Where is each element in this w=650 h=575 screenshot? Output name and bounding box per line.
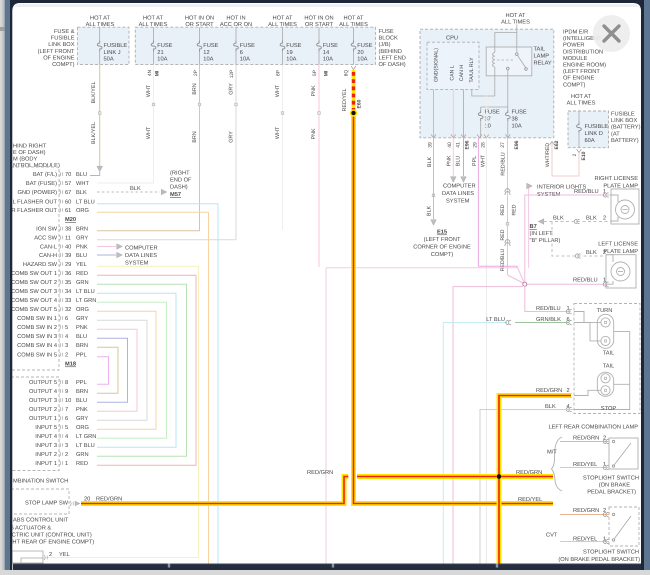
svg-text:FUSE: FUSE (512, 110, 527, 116)
svg-text:COMPUTER: COMPUTER (125, 246, 158, 252)
svg-text:10A: 10A (240, 57, 250, 63)
svg-text:BLK: BLK (427, 206, 433, 217)
svg-text:HOT AT: HOT AT (90, 16, 111, 22)
svg-text:PNK: PNK (311, 128, 317, 139)
svg-text:E OF DASH): E OF DASH) (13, 149, 46, 156)
svg-text:LT BLU: LT BLU (76, 443, 95, 449)
svg-text:BLK/YEL: BLK/YEL (91, 122, 97, 144)
svg-text:M57: M57 (170, 192, 181, 198)
svg-text:CAN-L: CAN-L (40, 245, 57, 251)
svg-text:BLU: BLU (76, 253, 87, 259)
svg-text:COMB SW IN 1: COMB SW IN 1 (17, 316, 57, 322)
svg-text:2: 2 (49, 552, 52, 558)
svg-text:M/T: M/T (547, 449, 557, 456)
svg-text:2: 2 (603, 216, 606, 222)
svg-text:HOT AT: HOT AT (343, 16, 364, 22)
svg-text:12: 12 (203, 50, 209, 56)
svg-text:2: 2 (65, 452, 68, 458)
svg-text:COMB SW OUT 3: COMB SW OUT 3 (11, 289, 57, 295)
svg-text:CAN H: CAN H (459, 65, 465, 81)
svg-text:5: 5 (65, 325, 68, 331)
svg-text:BLK: BLK (586, 250, 597, 256)
svg-text:BRN: BRN (192, 131, 198, 142)
svg-text:ORG: ORG (76, 425, 89, 431)
svg-text:E96: E96 (464, 140, 470, 149)
svg-text:RIGHT LICENSE: RIGHT LICENSE (594, 176, 638, 182)
svg-text:HOT IN: HOT IN (226, 16, 245, 22)
svg-text:INPUT 4: INPUT 4 (35, 434, 57, 440)
svg-text:BRN: BRN (192, 83, 198, 94)
svg-text:PNK: PNK (76, 245, 88, 251)
svg-text:20: 20 (357, 50, 363, 56)
svg-text:10A: 10A (286, 57, 296, 63)
svg-text:50A: 50A (104, 57, 114, 63)
svg-text:YEL: YEL (59, 552, 70, 558)
svg-text:RED/BLU: RED/BLU (536, 305, 561, 312)
svg-text:RED/GRN: RED/GRN (573, 435, 599, 442)
svg-text:LINK BOX: LINK BOX (48, 42, 74, 48)
svg-text:CVT: CVT (546, 533, 558, 539)
svg-text:(LEFT FRONT: (LEFT FRONT (563, 68, 600, 75)
svg-text:8Q: 8Q (343, 70, 349, 77)
svg-text:BAT (F/L): BAT (F/L) (33, 171, 57, 178)
svg-text:BLK: BLK (586, 216, 597, 222)
svg-text:(AT: (AT (611, 130, 620, 137)
svg-text:6: 6 (240, 50, 243, 56)
svg-text:(LEFT FRONT: (LEFT FRONT (38, 48, 75, 55)
svg-text:RED/GRN: RED/GRN (573, 507, 599, 514)
svg-text:ACC SW: ACC SW (34, 236, 57, 242)
svg-text:DASH): DASH) (170, 184, 188, 191)
svg-text:19: 19 (286, 50, 292, 56)
svg-text:29: 29 (65, 262, 71, 268)
svg-text:PPL: PPL (76, 380, 87, 386)
svg-text:BLK/YEL: BLK/YEL (91, 82, 97, 104)
svg-text:PEDAL BRACKET): PEDAL BRACKET) (587, 489, 636, 496)
svg-text:LT BLU: LT BLU (76, 289, 95, 295)
svg-text:HAZARD SW: HAZARD SW (23, 262, 58, 268)
svg-text:LEFT LICENSE: LEFT LICENSE (598, 242, 638, 248)
svg-text:14: 14 (323, 50, 329, 56)
svg-text:HOT AT: HOT AT (272, 16, 293, 22)
svg-text:TAIL: TAIL (534, 47, 546, 53)
svg-text:MI: MI (154, 70, 160, 76)
svg-text:38: 38 (512, 117, 518, 123)
svg-text:10: 10 (65, 398, 71, 404)
svg-text:(ON BRAKE PEDAL BRACKET): (ON BRAKE PEDAL BRACKET) (558, 556, 640, 563)
svg-text:RED/YEL: RED/YEL (518, 496, 542, 503)
svg-text:L FLASHER OUT: L FLASHER OUT (13, 200, 58, 206)
svg-text:POWER: POWER (563, 43, 585, 49)
svg-text:10A: 10A (512, 124, 522, 130)
svg-text:4: 4 (65, 434, 68, 440)
svg-text:WHT: WHT (275, 84, 281, 97)
svg-text:LT BLU: LT BLU (76, 200, 95, 206)
svg-text:WHT: WHT (480, 154, 486, 167)
svg-text:WHT: WHT (275, 126, 281, 139)
svg-text:SYSTEM: SYSTEM (446, 199, 470, 205)
svg-text:11: 11 (65, 236, 71, 242)
svg-text:INPUT 5: INPUT 5 (35, 425, 57, 431)
svg-text:BLK: BLK (427, 157, 433, 168)
svg-text:COMB SW IN 5: COMB SW IN 5 (17, 353, 57, 359)
svg-text:SYSTEM: SYSTEM (125, 261, 149, 267)
svg-text:8P: 8P (275, 70, 281, 76)
svg-text:STOPLIGHT SWITCH: STOPLIGHT SWITCH (583, 550, 639, 556)
svg-text:E62: E62 (554, 140, 560, 149)
svg-text:5: 5 (65, 425, 68, 431)
svg-text:OUTPUT 2: OUTPUT 2 (29, 407, 57, 413)
svg-text:RED/BLU: RED/BLU (500, 152, 506, 175)
svg-text:M (BODY: M (BODY (13, 156, 38, 163)
svg-text:37: 37 (485, 117, 491, 123)
svg-text:E60: E60 (356, 99, 362, 108)
svg-text:LAMP: LAMP (534, 54, 550, 60)
svg-text:2P: 2P (193, 70, 199, 76)
svg-text:HIND RIGHT: HIND RIGHT (13, 144, 47, 150)
svg-text:MBINATION SWITCH: MBINATION SWITCH (13, 479, 68, 485)
svg-text:MODULE: MODULE (563, 56, 588, 62)
svg-text:DISTRIBUTION: DISTRIBUTION (563, 49, 603, 55)
svg-text:6: 6 (65, 316, 68, 322)
svg-text:RED/YEL: RED/YEL (573, 461, 597, 468)
svg-text:PNK: PNK (76, 407, 88, 413)
svg-text:4N: 4N (147, 69, 153, 76)
svg-text:CAN-H: CAN-H (39, 253, 57, 259)
svg-text:2: 2 (65, 353, 68, 359)
svg-text:PNK: PNK (311, 85, 317, 96)
svg-text:6: 6 (65, 416, 68, 422)
svg-text:ALL TIMES: ALL TIMES (501, 20, 530, 26)
svg-text:60: 60 (65, 200, 71, 206)
svg-text:60A: 60A (585, 138, 595, 144)
svg-text:COMB SW OUT 1: COMB SW OUT 1 (11, 271, 57, 277)
svg-text:BRN: BRN (76, 343, 88, 349)
svg-text:BLU: BLU (76, 334, 87, 340)
svg-text:B7: B7 (530, 224, 537, 230)
svg-text:GND (POWER): GND (POWER) (18, 189, 58, 196)
svg-text:COMPT): COMPT) (52, 61, 75, 68)
svg-text:PNK: PNK (76, 325, 88, 331)
svg-text:R FLASHER OUT: R FLASHER OUT (11, 208, 57, 214)
svg-text:FUSE: FUSE (286, 43, 301, 49)
svg-text:NTROL MODULE): NTROL MODULE) (13, 162, 60, 169)
svg-text:COMB SW IN 3: COMB SW IN 3 (17, 334, 57, 340)
svg-text:GRN: GRN (76, 280, 89, 286)
svg-text:OF DASH): OF DASH) (379, 61, 406, 68)
svg-text:41: 41 (455, 142, 461, 148)
svg-text:LINK J: LINK J (104, 50, 121, 56)
svg-text:RED/GRN: RED/GRN (536, 387, 562, 394)
svg-text:GRY: GRY (228, 83, 234, 95)
svg-text:COMB SW IN 4: COMB SW IN 4 (17, 343, 57, 349)
svg-text:7: 7 (65, 407, 68, 413)
svg-text:BLK: BLK (76, 190, 87, 196)
svg-text:MI: MI (323, 70, 329, 76)
svg-text:LT GRN: LT GRN (76, 434, 96, 440)
svg-text:E10: E10 (581, 151, 587, 160)
svg-text:ECTRIC UNIT (CONTROL UNIT): ECTRIC UNIT (CONTROL UNIT) (8, 532, 92, 539)
svg-text:GRY: GRY (76, 416, 88, 422)
svg-text:BLK: BLK (553, 216, 564, 222)
svg-text:E96: E96 (514, 140, 520, 149)
svg-text:10A: 10A (157, 57, 167, 63)
svg-text:ALL TIMES: ALL TIMES (567, 101, 596, 107)
svg-text:WHT: WHT (146, 126, 152, 139)
svg-text:70: 70 (65, 172, 71, 178)
svg-text:35: 35 (65, 280, 71, 286)
svg-text:LT GRN: LT GRN (76, 298, 96, 304)
svg-text:GRY: GRY (228, 131, 234, 143)
svg-text:38: 38 (65, 227, 71, 233)
svg-text:ABS CONTROL UNIT: ABS CONTROL UNIT (13, 518, 69, 524)
svg-text:BLK: BLK (545, 404, 556, 410)
svg-text:TURN: TURN (597, 308, 613, 314)
svg-text:RED/BLU: RED/BLU (573, 277, 598, 284)
svg-text:FUSE &: FUSE & (54, 29, 75, 35)
svg-text:COMPT): COMPT) (431, 251, 454, 258)
svg-text:RED: RED (76, 461, 88, 467)
svg-text:(LEFT FRONT: (LEFT FRONT (424, 236, 461, 243)
svg-text:FUSE: FUSE (379, 29, 394, 35)
svg-text:HOT AT: HOT AT (505, 13, 526, 19)
svg-text:3: 3 (65, 443, 68, 449)
svg-text:1: 1 (65, 461, 68, 467)
svg-text:28: 28 (480, 142, 486, 148)
svg-text:INPUT 1: INPUT 1 (35, 461, 57, 467)
svg-text:RED/BLU: RED/BLU (574, 188, 599, 195)
svg-text:PPL: PPL (472, 156, 478, 166)
svg-text:ENGINE ROOM): ENGINE ROOM) (563, 62, 606, 69)
svg-text:OUTPUT 5: OUTPUT 5 (29, 380, 57, 386)
svg-text:BRN: BRN (76, 227, 88, 233)
svg-text:FUSE: FUSE (323, 43, 338, 49)
svg-text:RED: RED (500, 229, 506, 240)
svg-text:RED: RED (76, 271, 88, 277)
svg-text:(BATTERY): (BATTERY) (611, 124, 641, 131)
svg-text:STOPLIGHT SWITCH: STOPLIGHT SWITCH (583, 476, 639, 482)
svg-text:INPUT 2: INPUT 2 (35, 452, 57, 458)
svg-text:39: 39 (427, 142, 433, 148)
svg-text:BLU: BLU (76, 398, 87, 404)
svg-text:61: 61 (65, 208, 71, 214)
svg-text:BATTERY): BATTERY) (611, 137, 639, 144)
svg-text:FUSIBLE: FUSIBLE (51, 36, 75, 42)
svg-text:57: 57 (65, 181, 71, 187)
svg-text:RELAY: RELAY (534, 61, 552, 67)
svg-text:32: 32 (65, 307, 71, 313)
svg-text:COMB SW OUT 2: COMB SW OUT 2 (11, 280, 57, 286)
svg-text:40: 40 (65, 245, 71, 251)
svg-text:10A: 10A (203, 57, 213, 63)
svg-text:RED/GRN: RED/GRN (307, 469, 333, 476)
svg-text:OUTPUT 4: OUTPUT 4 (29, 389, 57, 395)
svg-text:FUSIBLE: FUSIBLE (585, 124, 609, 130)
svg-text:HOT AT: HOT AT (571, 94, 592, 100)
svg-text:67: 67 (65, 190, 71, 196)
svg-text:COMB SW IN 2: COMB SW IN 2 (17, 325, 57, 331)
svg-text:OUTPUT 1: OUTPUT 1 (29, 416, 57, 422)
svg-text:STOP: STOP (601, 406, 617, 412)
svg-text:BRN: BRN (76, 389, 88, 395)
svg-text:(IN LEFT: (IN LEFT (530, 230, 554, 237)
svg-text:IGN SW: IGN SW (36, 227, 57, 233)
svg-text:M18: M18 (65, 362, 76, 368)
svg-text:FUSE: FUSE (203, 43, 218, 49)
svg-text:TAIL: TAIL (603, 364, 615, 370)
svg-text:LEFT END: LEFT END (379, 55, 406, 61)
svg-text:RED/GRN: RED/GRN (516, 469, 542, 476)
svg-text:OF ENGINE: OF ENGINE (563, 76, 594, 82)
svg-text:GRN/BLK: GRN/BLK (536, 316, 561, 323)
svg-text:PNK: PNK (447, 155, 453, 166)
svg-text:FUSE: FUSE (157, 43, 172, 49)
svg-text:COMB SW OUT 5: COMB SW OUT 5 (11, 307, 57, 313)
svg-text:39: 39 (65, 253, 71, 259)
svg-text:RED: RED (511, 204, 517, 215)
svg-text:INPUT 3: INPUT 3 (35, 443, 57, 449)
svg-text:GND(SIGNAL): GND(SIGNAL) (433, 48, 439, 82)
svg-text:27: 27 (500, 142, 506, 148)
svg-text:OUTPUT 3: OUTPUT 3 (29, 398, 57, 404)
svg-text:GHT REAR OF ENGINE COMPT): GHT REAR OF ENGINE COMPT) (8, 539, 94, 546)
svg-text:WHT: WHT (146, 84, 152, 97)
svg-text:5P: 5P (312, 70, 318, 76)
svg-text:HOT AT: HOT AT (143, 16, 164, 22)
svg-text:BLU: BLU (455, 156, 461, 167)
svg-text:ORG: ORG (76, 208, 89, 214)
svg-text:12P: 12P (229, 70, 235, 79)
svg-text:BLU: BLU (76, 172, 87, 178)
svg-text:LINK BOX: LINK BOX (611, 118, 637, 124)
svg-text:FUSIBLE: FUSIBLE (611, 112, 635, 118)
svg-text:(ON BRAKE: (ON BRAKE (599, 482, 630, 489)
svg-text:PLATE LAMP: PLATE LAMP (603, 249, 638, 255)
svg-text:OF ENGINE: OF ENGINE (43, 55, 74, 61)
svg-text:HOT IN ON: HOT IN ON (185, 16, 214, 22)
svg-text:FUSE: FUSE (357, 43, 372, 49)
svg-text:WHT: WHT (76, 181, 89, 187)
svg-text:END OF: END OF (170, 178, 192, 184)
svg-text:BLK: BLK (130, 186, 141, 192)
svg-text:HOT IN ON: HOT IN ON (304, 16, 333, 22)
svg-text:STOP LAMP SW: STOP LAMP SW (25, 501, 69, 507)
svg-text:S ACTUATOR &: S ACTUATOR & (10, 526, 51, 532)
svg-text:CORNER OF ENGINE: CORNER OF ENGINE (413, 245, 471, 251)
svg-text:LINK D: LINK D (585, 131, 603, 137)
svg-text:CPU: CPU (446, 36, 458, 42)
svg-text:GRY: GRY (76, 236, 88, 242)
svg-text:RED: RED (500, 204, 506, 215)
svg-text:BAT (FUSE): BAT (FUSE) (26, 180, 57, 187)
svg-text:"B" PILLAR): "B" PILLAR) (530, 237, 561, 244)
svg-text:(BEHIND: (BEHIND (379, 48, 402, 55)
svg-text:33: 33 (65, 298, 71, 304)
svg-text:21: 21 (157, 50, 163, 56)
svg-text:CAN L: CAN L (450, 65, 456, 80)
svg-text:PPL: PPL (76, 353, 87, 359)
svg-text:10A: 10A (323, 57, 333, 63)
svg-text:10: 10 (485, 124, 491, 130)
svg-text:3: 3 (65, 343, 68, 349)
svg-text:COMPT): COMPT) (563, 81, 586, 88)
svg-text:LEFT REAR COMBINATION LAMP: LEFT REAR COMBINATION LAMP (548, 425, 638, 431)
svg-text:GRN: GRN (76, 452, 89, 458)
svg-text:E15: E15 (437, 230, 447, 236)
svg-text:WHT/RED: WHT/RED (545, 143, 551, 167)
svg-text:8: 8 (65, 380, 68, 386)
svg-text:DATA LINES: DATA LINES (125, 253, 157, 259)
svg-text:36: 36 (65, 271, 71, 277)
svg-text:COMB SW OUT 4: COMB SW OUT 4 (11, 298, 57, 304)
svg-text:10A: 10A (357, 57, 367, 63)
svg-text:DATA LINES: DATA LINES (442, 191, 474, 197)
svg-text:M20: M20 (65, 217, 76, 223)
svg-text:TA/UL RLY: TA/UL RLY (469, 57, 475, 83)
svg-text:4: 4 (65, 334, 68, 340)
svg-text:FUSIBLE: FUSIBLE (104, 43, 128, 49)
svg-text:29: 29 (472, 142, 478, 148)
svg-text:(RIGHT: (RIGHT (170, 170, 190, 177)
svg-text:ORG: ORG (76, 307, 89, 313)
svg-text:34: 34 (65, 289, 71, 295)
svg-text:COMPUTER: COMPUTER (443, 184, 476, 190)
svg-text:RED/YEL: RED/YEL (342, 88, 348, 111)
svg-text:BLOCK: BLOCK (379, 36, 398, 42)
svg-text:GRY: GRY (76, 316, 88, 322)
svg-text:FUSE: FUSE (240, 43, 255, 49)
svg-text:2: 2 (572, 153, 578, 156)
svg-text:(J/B): (J/B) (379, 41, 391, 48)
svg-text:9: 9 (65, 389, 68, 395)
svg-text:YEL: YEL (76, 262, 87, 268)
svg-text:40: 40 (447, 142, 453, 148)
svg-text:IPDM E/R: IPDM E/R (563, 29, 588, 36)
svg-text:TAIL: TAIL (603, 351, 615, 357)
